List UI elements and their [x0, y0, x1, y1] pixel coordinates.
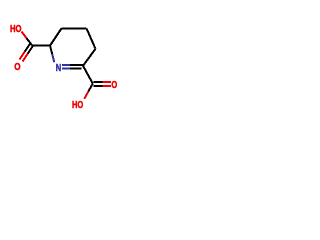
bond C8=O3 bottom line black half: [94, 85, 103, 87]
svg-text:N: N: [56, 63, 61, 74]
bond C7=O2 double line B black half: [25, 44, 30, 52]
bond C3-C4: [62, 27, 87, 29]
svg-text:O: O: [14, 62, 20, 73]
bond N1=C6 bottom line blue half: [62, 68, 70, 70]
wire bond O1-C7 black half: [27, 38, 32, 45]
bond C8=O3 top line black half: [94, 81, 103, 83]
bond C8=O3 top line red half: [102, 81, 111, 83]
bond C2-N1 black half: [50, 46, 52, 54]
bond N1=C6 top line black half: [70, 64, 83, 66]
wire bond O1-C7 red half: [22, 32, 27, 39]
bond C8-O4 red half: [84, 91, 88, 99]
background: [0, 0, 130, 130]
svg-text:HO: HO: [72, 100, 83, 111]
bond C6-C8: [83, 66, 93, 84]
bond C7-C2: [32, 45, 51, 47]
bond N1=C6 top line blue half: [62, 64, 70, 66]
bond C7=O2 double line A red half: [23, 54, 28, 62]
bond C7=O2 double line A black half: [28, 46, 33, 54]
bond C7=O2 double line B red half: [20, 52, 25, 60]
bond C8=O3 bottom line red half: [102, 85, 111, 87]
bond C8-O4 black half: [89, 84, 93, 92]
svg-text:O: O: [111, 80, 117, 91]
bond N1=C6 bottom line black half: [70, 68, 81, 70]
bond C2-C3: [50, 28, 62, 45]
bond C2-N1 blue half: [52, 54, 54, 62]
bond C5-C6: [83, 49, 96, 66]
bond C4-C5: [87, 28, 96, 48]
svg-text:HO: HO: [10, 24, 22, 35]
